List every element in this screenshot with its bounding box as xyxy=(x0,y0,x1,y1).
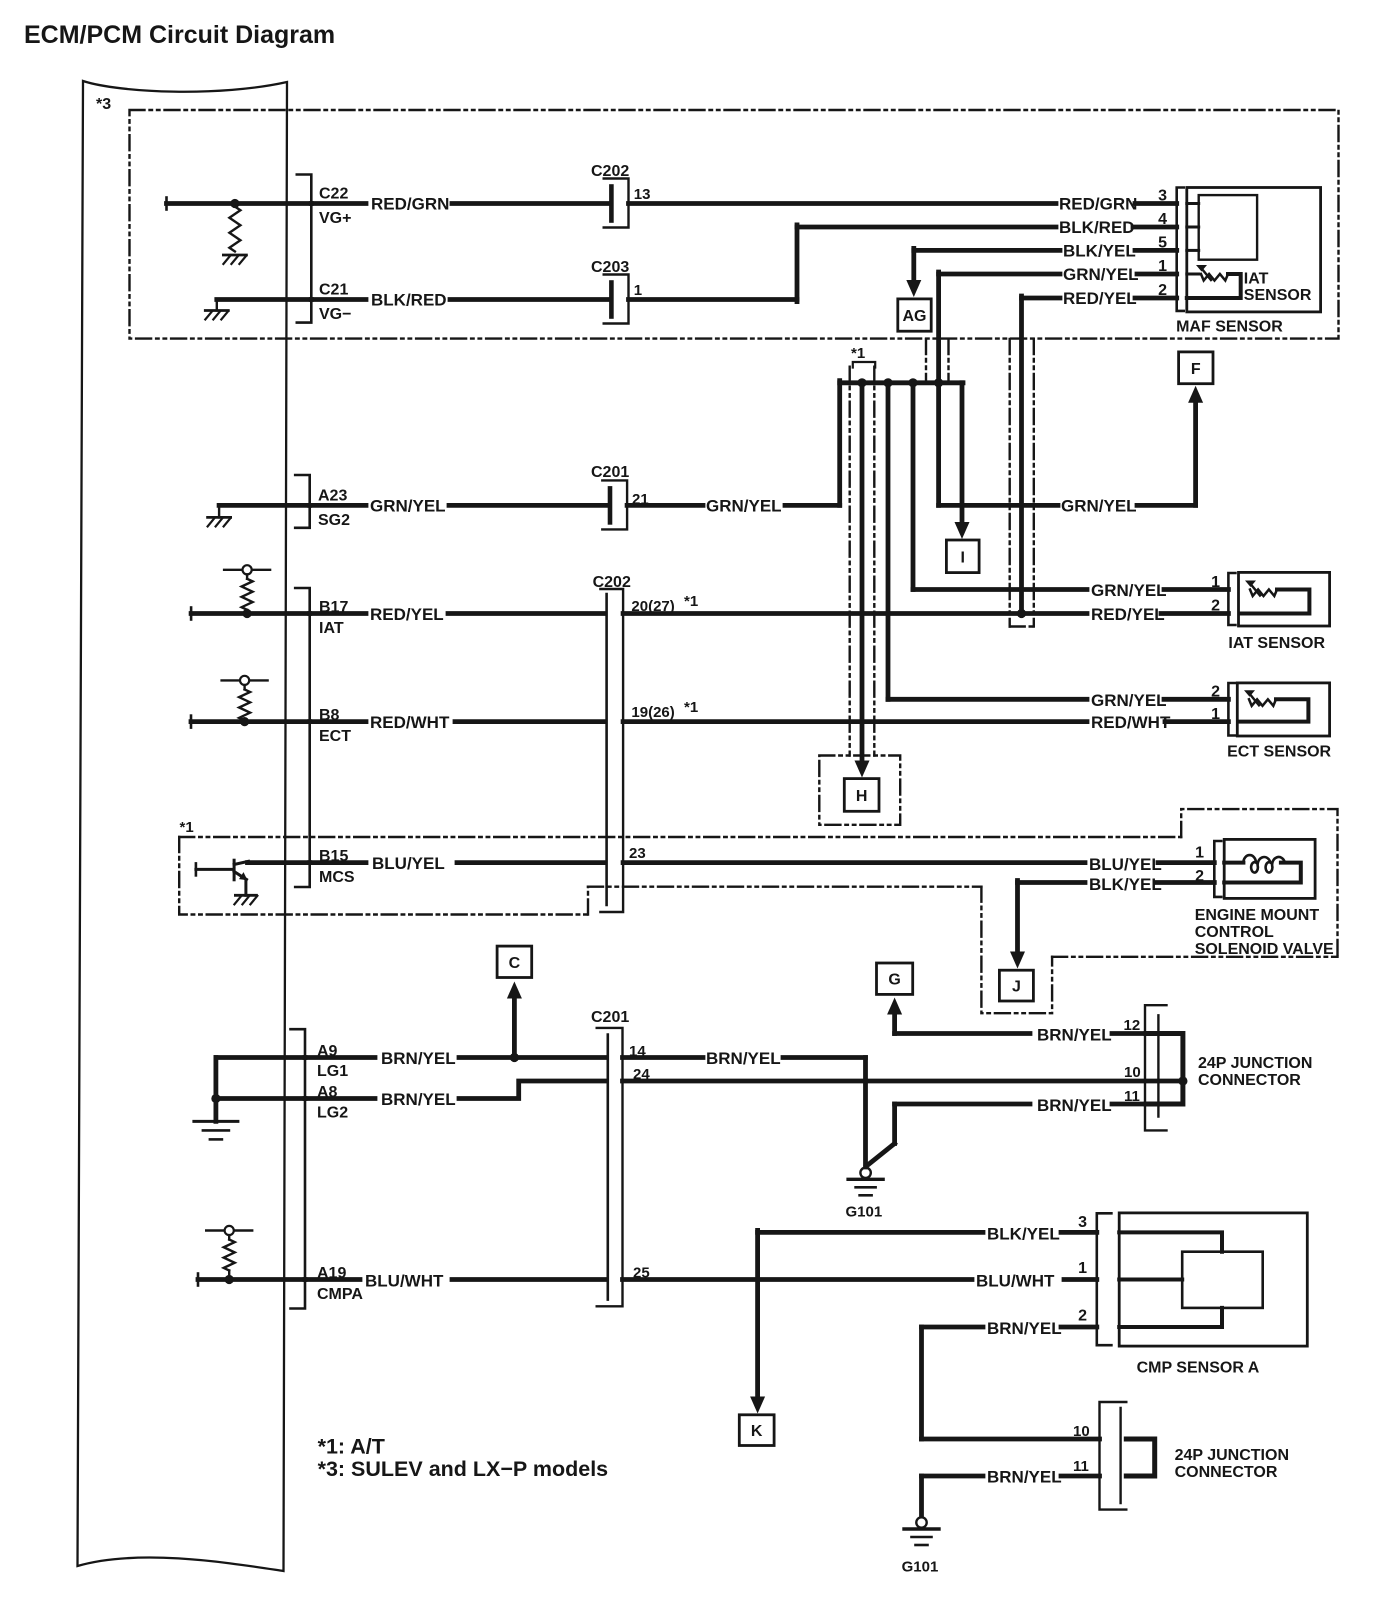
wire BRN/YEL pin14 to G101 riser xyxy=(623,1055,704,1060)
svg-text:5: 5 xyxy=(1158,235,1167,252)
wire drop bus to I xyxy=(960,383,965,523)
solenoid bracket xyxy=(1214,841,1221,897)
svg-text:1: 1 xyxy=(634,282,642,299)
svg-text:BLK/RED: BLK/RED xyxy=(371,291,447,310)
wire BLU/YEL into solenoid xyxy=(1158,860,1214,865)
ECT thermistor loop xyxy=(1239,699,1309,721)
arrow into J xyxy=(1010,952,1025,969)
svg-text:11: 11 xyxy=(1124,1088,1140,1105)
svg-text:4: 4 xyxy=(1158,211,1167,228)
wire BRN/YEL A8 step to pin 24 xyxy=(459,1081,606,1099)
svg-text:19(26): 19(26) xyxy=(631,704,674,721)
pin stub B15 xyxy=(310,860,366,865)
wire C22 internal xyxy=(165,198,168,210)
pull-up resistor at B17 xyxy=(224,569,270,571)
wire A9-A8 ground leg xyxy=(213,1058,218,1122)
svg-text:CMPA: CMPA xyxy=(317,1286,363,1303)
wire riser to C xyxy=(512,996,517,1058)
svg-text:LG2: LG2 xyxy=(317,1105,348,1122)
wire A9 internal xyxy=(216,1055,305,1060)
svg-text:IAT: IAT xyxy=(319,620,344,637)
ECT sensor box xyxy=(1237,683,1329,736)
svg-text:1: 1 xyxy=(1195,845,1204,862)
wire BLU/YEL to C202 xyxy=(457,860,605,865)
svg-text:MCS: MCS xyxy=(319,869,355,886)
connector box I xyxy=(946,540,979,573)
node junction bus pin10 xyxy=(1178,1076,1187,1085)
pin stub A19 xyxy=(305,1277,360,1282)
dash-dot channel around RED/YEL drop xyxy=(1009,339,1011,627)
bracket *1 at bus xyxy=(853,362,875,368)
wire BLK/YEL drop to AG xyxy=(911,248,916,285)
ground A9/A8 internal xyxy=(194,1120,238,1123)
wire BLK/RED C203 to riser xyxy=(629,297,798,302)
wire riser to G xyxy=(892,1012,897,1034)
svg-text:ECT SENSOR: ECT SENSOR xyxy=(1227,744,1331,761)
pull-up resistor at B8 xyxy=(222,679,268,681)
wire drop bus to H xyxy=(860,383,865,761)
junction bus bar top connector xyxy=(1146,1034,1183,1105)
pin stub A23 xyxy=(310,503,366,508)
node C arrow tap xyxy=(510,1053,519,1062)
CMP internal wiring pin1 xyxy=(1119,1278,1182,1282)
svg-text:K: K xyxy=(751,1423,763,1440)
ECT thermistor xyxy=(1249,699,1276,706)
svg-text:*1: *1 xyxy=(180,819,194,836)
svg-text:13: 13 xyxy=(634,186,651,203)
svg-text:24P JUNCTION: 24P JUNCTION xyxy=(1198,1055,1312,1072)
svg-text:C201: C201 xyxy=(591,464,629,481)
svg-text:RED/GRN: RED/GRN xyxy=(371,195,449,214)
svg-text:LG1: LG1 xyxy=(317,1063,348,1080)
svg-text:G: G xyxy=(888,972,900,989)
svg-text:VG−: VG− xyxy=(319,306,351,323)
svg-text:1: 1 xyxy=(1158,258,1167,275)
dash-dot enclosure H xyxy=(819,756,900,825)
svg-text:1: 1 xyxy=(1211,706,1220,723)
svg-text:BRN/YEL: BRN/YEL xyxy=(1037,1026,1112,1045)
svg-text:3: 3 xyxy=(1078,1214,1087,1231)
connector box C xyxy=(497,946,532,977)
svg-text:C21: C21 xyxy=(319,282,348,299)
wire RED/GRN C202 to MAF pin 3 xyxy=(629,201,1057,206)
node bus-MAF xyxy=(934,378,943,387)
svg-text:2: 2 xyxy=(1158,282,1167,299)
svg-text:10: 10 xyxy=(1073,1423,1090,1440)
wire BRN/YEL A9 to C201 xyxy=(459,1055,606,1060)
junction bus bar bottom connector xyxy=(1126,1439,1154,1476)
ground (chassis) below C22 resistor xyxy=(223,254,246,257)
svg-text:GRN/YEL: GRN/YEL xyxy=(1091,581,1167,600)
svg-text:RED/YEL: RED/YEL xyxy=(1063,289,1137,308)
svg-text:12: 12 xyxy=(1124,1017,1141,1034)
connector box J xyxy=(999,970,1033,1001)
wire A8 internal xyxy=(216,1096,305,1101)
CMP internal wiring pin2 xyxy=(1119,1308,1222,1327)
wire BLK/RED to MAF pin 4 xyxy=(797,225,1056,230)
arrow into H xyxy=(855,761,870,778)
dash-dot channel A/T around H drop xyxy=(849,367,851,756)
svg-text:*3: SULEV and LX−P models: *3: SULEV and LX−P models xyxy=(318,1457,609,1481)
svg-text:CONTROL: CONTROL xyxy=(1195,924,1274,941)
connector box K xyxy=(739,1415,774,1446)
pin stub C22 xyxy=(311,201,366,206)
wire BLU/WHT to C201 xyxy=(452,1277,606,1282)
transistor Q internal MCS driver xyxy=(195,863,198,875)
wire RED/YEL C202 to IAT sensor xyxy=(623,611,1087,616)
connector bracket B17/B8/B15 xyxy=(295,588,310,887)
arrow into G xyxy=(887,998,902,1015)
svg-text:MAF SENSOR: MAF SENSOR xyxy=(1176,319,1283,336)
junction connector 24P top bracket xyxy=(1145,1005,1167,1130)
wire RED/YEL from MAF pin 2 xyxy=(1022,296,1061,301)
svg-text:ECM/PCM Circuit Diagram: ECM/PCM Circuit Diagram xyxy=(24,21,335,49)
svg-text:10: 10 xyxy=(1124,1064,1141,1081)
svg-text:BRN/YEL: BRN/YEL xyxy=(381,1090,456,1109)
ground at A23/SG2 line xyxy=(218,505,220,517)
svg-text:SOLENOID VALVE: SOLENOID VALVE xyxy=(1195,941,1334,958)
arrow into AG xyxy=(906,280,921,297)
wire CMP pin2 to junction pin10 leg xyxy=(919,1327,924,1439)
wire A19 internal xyxy=(197,1274,200,1286)
wire BLK/YEL CMP pin3 xyxy=(758,1230,983,1235)
svg-text:BLK/YEL: BLK/YEL xyxy=(987,1225,1060,1244)
arrow into K xyxy=(750,1397,765,1414)
svg-text:BRN/YEL: BRN/YEL xyxy=(1037,1096,1112,1115)
MAF sensor bracket xyxy=(1177,188,1184,311)
svg-text:23: 23 xyxy=(629,845,646,862)
junction bus wire xyxy=(840,380,963,385)
svg-text:1: 1 xyxy=(1078,1260,1087,1277)
wire BRN/YEL junction pin11 to G101 xyxy=(895,1102,1030,1107)
wire RED/YEL drop to IAT line xyxy=(1019,296,1024,614)
IAT sensor bracket xyxy=(1228,573,1235,625)
svg-text:BLU/WHT: BLU/WHT xyxy=(365,1272,444,1291)
wire RED/YEL to C202 xyxy=(448,611,605,616)
wire BRN/YEL CMP pin2 xyxy=(922,1325,984,1330)
wire GRN/YEL bus to IAT pin1 xyxy=(911,383,916,590)
connector box H xyxy=(844,779,879,812)
svg-text:IAT SENSOR: IAT SENSOR xyxy=(1228,635,1325,652)
svg-text:*1: *1 xyxy=(851,345,865,362)
MAF IAT thermistor xyxy=(1187,273,1199,276)
svg-text:3: 3 xyxy=(1158,188,1167,205)
wire G101 drop from pin14 row xyxy=(863,1058,868,1168)
pull-up resistor at A19 xyxy=(206,1229,252,1231)
wire RED/YEL into IAT xyxy=(1161,611,1228,616)
svg-text:BRN/YEL: BRN/YEL xyxy=(987,1319,1062,1338)
svg-text:RED/YEL: RED/YEL xyxy=(370,605,444,624)
connector box G xyxy=(877,963,913,994)
ground at transistor emitter xyxy=(235,894,256,897)
connector box F xyxy=(1179,352,1213,384)
wire BRN/YEL to G box xyxy=(895,1031,1030,1036)
wire BRN/YEL junction bottom pin11 xyxy=(922,1474,984,1479)
svg-text:C201: C201 xyxy=(591,1009,629,1026)
wire diagonal to G101 xyxy=(867,1144,895,1167)
wire BRN/YEL to junction pin10 bottom xyxy=(922,1437,1100,1442)
MAF sensor box xyxy=(1187,188,1321,312)
svg-text:CMP SENSOR A: CMP SENSOR A xyxy=(1137,1360,1260,1377)
wire C21 internal xyxy=(217,297,311,302)
svg-text:1: 1 xyxy=(1211,574,1220,591)
pin stub A9 xyxy=(305,1055,375,1060)
CMP sensor box xyxy=(1119,1213,1307,1346)
junction connector 24P bottom bracket xyxy=(1100,1402,1127,1510)
node RED/YEL branch xyxy=(1017,609,1026,618)
dash-dot enclosure A/T MCS region xyxy=(179,837,588,915)
svg-text:RED/YEL: RED/YEL xyxy=(1091,605,1165,624)
wire BRN/YEL pin24 to junction pin10 xyxy=(623,1079,1184,1084)
pin stub C21 xyxy=(311,297,366,302)
connector bracket A23 xyxy=(295,475,310,528)
wire B8 internal xyxy=(190,716,193,728)
svg-text:BLU/YEL: BLU/YEL xyxy=(1089,855,1162,874)
wire riser to F xyxy=(1193,400,1198,505)
svg-text:BLK/RED: BLK/RED xyxy=(1059,218,1135,237)
wire BLK/YEL solenoid pin2 xyxy=(1018,880,1086,885)
svg-text:IAT: IAT xyxy=(1244,270,1269,287)
svg-text:G101: G101 xyxy=(902,1559,939,1576)
svg-text:CONNECTOR: CONNECTOR xyxy=(1175,1464,1278,1481)
wire BLU/WHT into CMP pin1 xyxy=(1064,1277,1097,1282)
wire drop to K xyxy=(755,1230,760,1397)
svg-text:G101: G101 xyxy=(846,1204,883,1221)
svg-text:I: I xyxy=(961,549,965,566)
wire RED/WHT to C202 xyxy=(455,719,605,724)
svg-text:RED/WHT: RED/WHT xyxy=(1091,713,1171,732)
svg-text:C22: C22 xyxy=(319,186,348,203)
svg-text:BLU/YEL: BLU/YEL xyxy=(372,854,445,873)
arrow into I xyxy=(955,522,970,539)
svg-text:*1: A/T: *1: A/T xyxy=(318,1435,385,1459)
wire GRN/YEL bus to F riser xyxy=(939,503,1058,508)
wire B15 internal xyxy=(248,860,310,865)
ground at C21/VG- line xyxy=(216,300,218,311)
svg-text:H: H xyxy=(856,788,868,805)
wire GRN/YEL from MAF pin 1 xyxy=(939,272,1060,277)
svg-text:ECT: ECT xyxy=(319,728,351,745)
wire BLU/YEL C202 to solenoid xyxy=(623,860,1085,865)
svg-text:BLU/WHT: BLU/WHT xyxy=(976,1272,1055,1291)
wire RED/WHT C202 to ECT sensor xyxy=(623,719,1087,724)
wire GRN/YEL to C201 xyxy=(449,503,607,508)
svg-text:RED/GRN: RED/GRN xyxy=(1059,195,1137,214)
wire GRN/YEL long drop MAF to row xyxy=(936,272,941,505)
ground G101 upper xyxy=(860,1168,870,1178)
wire GRN/YEL C201 to mid label xyxy=(627,503,703,508)
wire RED/WHT into ECT xyxy=(1165,719,1228,724)
solenoid coil xyxy=(1224,861,1243,865)
node A8 ground xyxy=(211,1094,220,1103)
svg-text:BRN/YEL: BRN/YEL xyxy=(381,1049,456,1068)
wire GRN/YEL to bus riser xyxy=(785,503,840,508)
svg-text:GRN/YEL: GRN/YEL xyxy=(1063,265,1139,284)
svg-text:SG2: SG2 xyxy=(318,512,350,529)
svg-text:CONNECTOR: CONNECTOR xyxy=(1198,1072,1301,1089)
ground G101 lower xyxy=(916,1517,926,1527)
pin stub B8 xyxy=(310,719,366,724)
node bus-H xyxy=(857,378,866,387)
wire B17 internal xyxy=(190,608,193,620)
svg-text:A23: A23 xyxy=(318,488,347,505)
MAF pin stubs 3 4 5 xyxy=(1187,202,1199,205)
node bus-ECT xyxy=(883,378,892,387)
svg-text:2: 2 xyxy=(1211,684,1220,701)
wire A23 internal xyxy=(219,503,310,508)
connector box AG xyxy=(898,299,931,331)
ECT sensor bracket xyxy=(1228,683,1235,736)
wire BLK/YEL drop to J xyxy=(1015,881,1020,953)
svg-text:GRN/YEL: GRN/YEL xyxy=(1091,691,1167,710)
svg-text:GRN/YEL: GRN/YEL xyxy=(370,497,446,516)
IAT sensor box xyxy=(1239,572,1330,626)
wire RED/GRN into MAF xyxy=(1135,201,1177,206)
wire BLK/RED to C203 xyxy=(450,297,608,302)
svg-text:BRN/YEL: BRN/YEL xyxy=(987,1468,1062,1487)
svg-text:ENGINE MOUNT: ENGINE MOUNT xyxy=(1195,907,1320,924)
wire BLK/RED into MAF xyxy=(1133,225,1177,230)
arrow into F xyxy=(1188,386,1203,403)
dash-dot enclosure *3 SULEV region xyxy=(130,110,1339,339)
svg-text:F: F xyxy=(1191,361,1201,378)
resistor to ground on C22/VG+ line xyxy=(230,199,239,208)
svg-text:2: 2 xyxy=(1078,1308,1087,1325)
svg-text:*1: *1 xyxy=(684,593,698,610)
connector bracket A9/A8/A19 xyxy=(291,1029,306,1308)
svg-text:VG+: VG+ xyxy=(319,210,351,227)
wire BLU/WHT C201 to CMP xyxy=(623,1277,973,1282)
MAF inner element box xyxy=(1199,195,1257,260)
svg-text:*3: *3 xyxy=(96,96,111,113)
CMP inner element box xyxy=(1182,1252,1263,1308)
svg-text:11: 11 xyxy=(1073,1458,1089,1475)
node bus-IAT xyxy=(908,378,917,387)
svg-text:GRN/YEL: GRN/YEL xyxy=(706,497,782,516)
ECM/PCM body outline xyxy=(78,81,288,1571)
bus riser left xyxy=(837,381,842,506)
wire pin11 ground leg xyxy=(892,1104,897,1144)
svg-text:J: J xyxy=(1012,979,1021,996)
CMP internal wiring pin3 xyxy=(1119,1232,1222,1251)
svg-text:BLK/YEL: BLK/YEL xyxy=(1089,875,1162,894)
wire pin11 ground leg bottom xyxy=(919,1476,924,1516)
svg-text:BRN/YEL: BRN/YEL xyxy=(706,1049,781,1068)
solenoid box xyxy=(1224,839,1315,898)
wire RED/GRN to C202 xyxy=(452,201,608,206)
svg-text:*1: *1 xyxy=(684,699,698,716)
svg-text:RED/WHT: RED/WHT xyxy=(370,713,450,732)
IAT thermistor xyxy=(1250,590,1277,597)
svg-text:24P JUNCTION: 24P JUNCTION xyxy=(1175,1447,1289,1464)
wire GRN/YEL bus to ECT pin2 xyxy=(886,383,891,700)
arrow into C xyxy=(507,982,522,999)
svg-text:GRN/YEL: GRN/YEL xyxy=(1061,497,1137,516)
connector bracket C22/C21 xyxy=(297,175,312,323)
wire BLK/RED riser xyxy=(795,225,800,302)
svg-text:2: 2 xyxy=(1211,598,1220,615)
IAT thermistor loop xyxy=(1240,590,1310,614)
wire BLK/YEL from MAF pin 5 xyxy=(914,248,1060,253)
svg-text:2: 2 xyxy=(1195,868,1204,885)
dash-dot enclosure solenoid valve xyxy=(1181,809,1337,957)
dash-dot channel around MAF GRN/YEL drop xyxy=(925,339,927,380)
pin stub B17 xyxy=(310,611,366,616)
pin stub A8 xyxy=(305,1096,375,1101)
svg-text:SENSOR: SENSOR xyxy=(1244,287,1312,304)
svg-text:BLK/YEL: BLK/YEL xyxy=(1063,242,1136,261)
MAF IAT thermistor loop wire xyxy=(1187,274,1241,298)
CMP sensor bracket xyxy=(1097,1213,1112,1345)
svg-text:C: C xyxy=(509,955,521,972)
svg-text:AG: AG xyxy=(903,308,927,325)
